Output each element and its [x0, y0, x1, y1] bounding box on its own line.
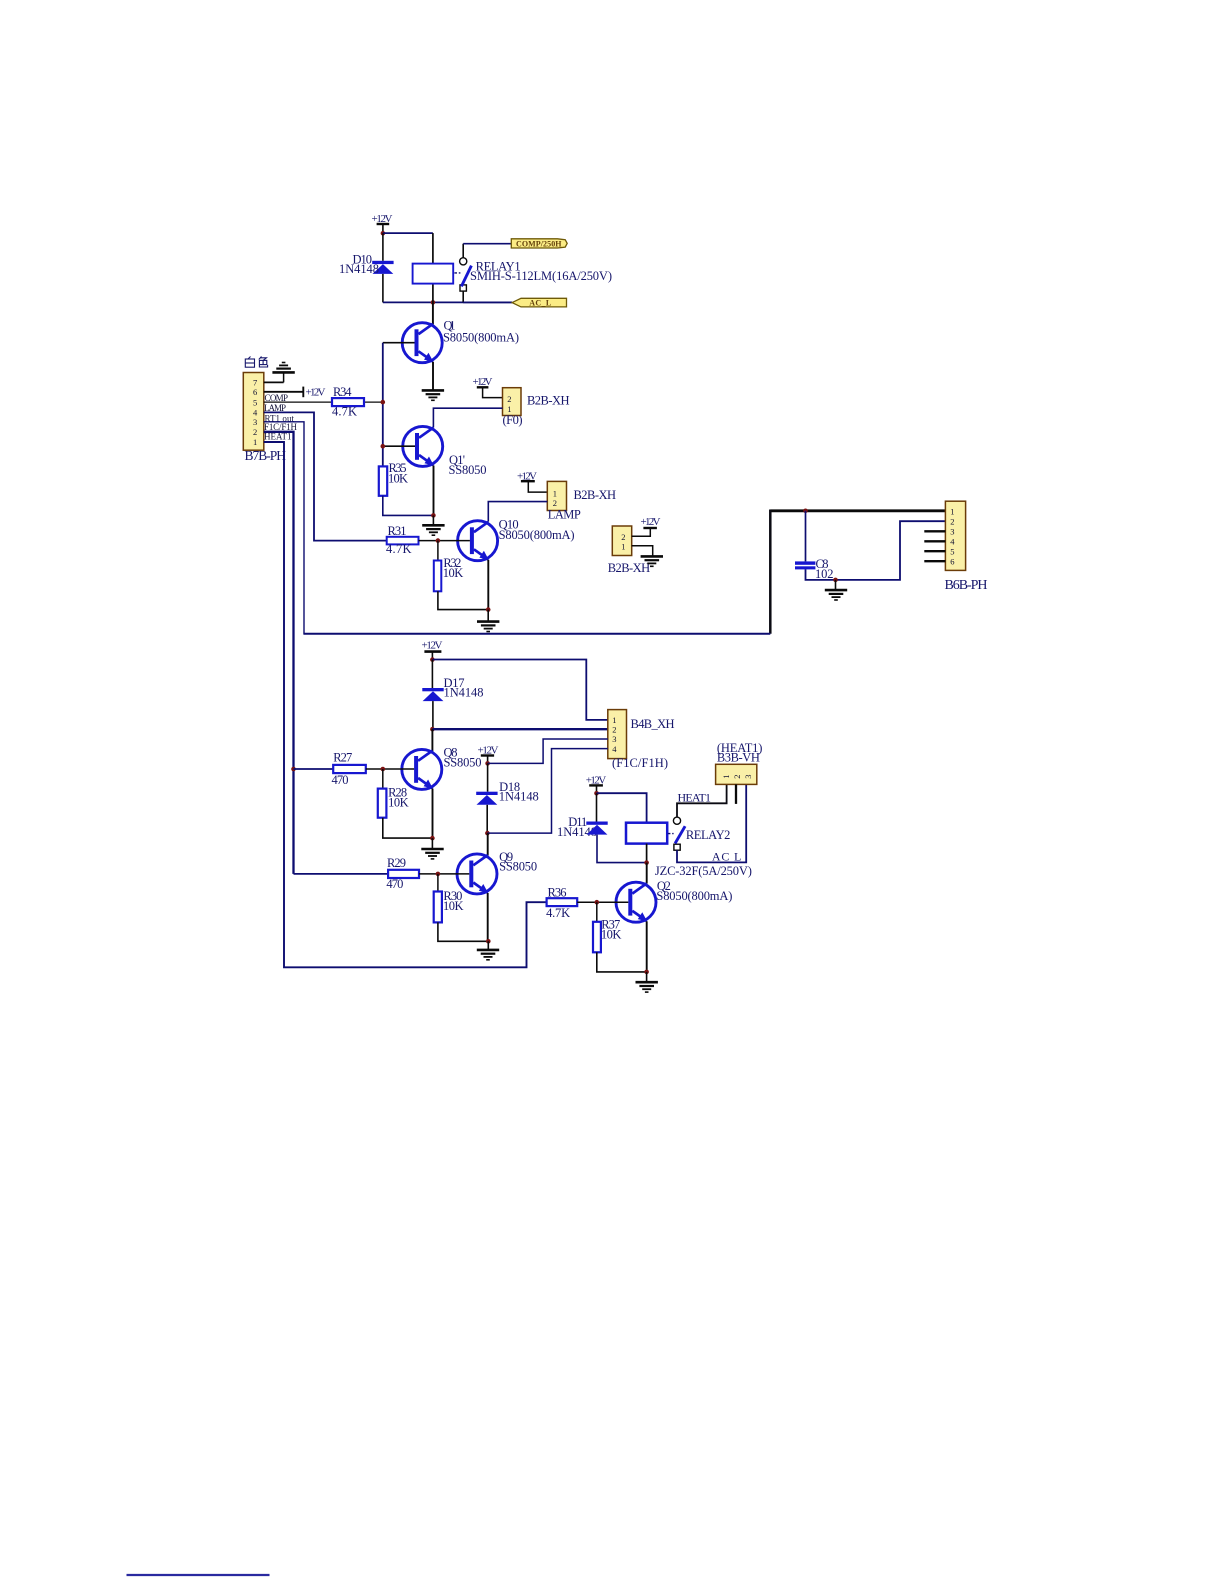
wire LAMP pin2 to Q10 collector	[488, 502, 547, 522]
label R34	[332, 385, 357, 418]
pin numbers B6B-PH 1..6	[950, 507, 955, 567]
svg-text:+12V: +12V	[473, 376, 493, 388]
wire C8 top stub	[805, 511, 807, 562]
wire R28 bottom to Q8 emitter junction	[383, 818, 433, 838]
svg-text:4: 4	[950, 537, 955, 547]
label Q1	[443, 318, 519, 344]
svg-text:1N4148: 1N4148	[339, 262, 379, 276]
svg-text:B6B-PH: B6B-PH	[945, 578, 988, 593]
svg-text:+12V: +12V	[306, 387, 326, 399]
svg-text:B3B-VH: B3B-VH	[717, 750, 760, 764]
label B2B-XH (F0)	[503, 394, 570, 427]
svg-text:1: 1	[612, 715, 616, 725]
power +12V (relay1)	[372, 213, 393, 234]
label C8	[815, 557, 834, 581]
wire B4B_XH pin2 row	[432, 728, 607, 730]
wire F0 pin1 to Q1' collector	[433, 408, 502, 427]
power +12V (F0)	[473, 376, 503, 398]
wire lower B2B-XH pin1 to ground	[632, 546, 653, 556]
svg-text:SS8050: SS8050	[499, 859, 537, 873]
wire stub to ground	[487, 610, 489, 622]
label RELAY1	[470, 259, 612, 282]
label D17	[444, 676, 484, 700]
pin numbers B2B-XH (lower)	[621, 532, 625, 552]
wire base column Q1/R34/Q1'/R35	[382, 343, 384, 467]
label B6B-PH	[945, 578, 988, 593]
svg-text:4: 4	[612, 744, 617, 754]
diode D11	[586, 822, 607, 835]
wire R27 to Q8 base	[366, 768, 414, 770]
connector B7B-PH body	[243, 373, 263, 451]
wire pin5 to R34	[264, 401, 383, 403]
diode D18	[476, 792, 497, 805]
svg-text:2: 2	[253, 427, 257, 437]
label RT1 out	[265, 413, 295, 423]
svg-text:B2B-XH: B2B-XH	[574, 488, 617, 502]
node junction Q2 emitter/R37	[644, 970, 649, 975]
wire relay2 coil bottom stub	[646, 844, 648, 863]
resistor R37	[593, 922, 601, 953]
svg-text:+12V: +12V	[641, 516, 661, 528]
label LAMP	[264, 403, 286, 413]
svg-text:2: 2	[950, 517, 954, 527]
wire Q10 emitter	[487, 560, 489, 610]
wire D11 anode to coil2 bottom junction	[597, 835, 647, 863]
node junction coil2/D11/Q2 collector	[644, 860, 649, 865]
power +12V (D18)	[478, 745, 499, 764]
wire relay1 common to AC_L flag (part of bottom row)	[463, 301, 512, 303]
wire R37 bottom to Q2 emitter junction	[597, 952, 647, 972]
label 白色 (drawn glyphs)	[245, 357, 267, 368]
svg-text:3: 3	[612, 734, 616, 744]
svg-text:SS8050: SS8050	[444, 756, 482, 770]
svg-text:JZC-32F(5A/250V): JZC-32F(5A/250V)	[655, 864, 752, 878]
connector B2B-XH (F0) body	[503, 388, 522, 416]
svg-text:R29: R29	[387, 856, 406, 870]
svg-text:R27: R27	[333, 751, 352, 765]
label Q10	[499, 517, 575, 542]
wire Q9 emitter	[487, 893, 489, 941]
wire relay2 NO contact to HEAT1/B3B pin1	[677, 784, 727, 817]
svg-text:1: 1	[950, 507, 954, 517]
svg-text:AC_L: AC_L	[529, 299, 551, 308]
wire pin4 down to R31 row	[264, 412, 387, 540]
label B4B_XH	[612, 717, 675, 770]
resistor R35	[379, 466, 387, 495]
svg-text:470: 470	[332, 773, 349, 787]
svg-text:1N4148: 1N4148	[499, 789, 539, 803]
node junction D17/B4B pin2	[430, 727, 435, 732]
diode D17	[422, 688, 443, 701]
node junction Q8 emitter/R28	[430, 836, 435, 841]
svg-text:10K: 10K	[388, 471, 408, 485]
connector B3B-VH body	[716, 764, 757, 784]
resistor R27	[333, 765, 366, 773]
label R29	[386, 856, 406, 891]
wire D11 cathode stub	[596, 793, 598, 821]
svg-text:S8050(800mA): S8050(800mA)	[656, 889, 732, 903]
svg-text:10K: 10K	[443, 899, 464, 913]
node junction Q10 emitter/R32	[486, 607, 491, 612]
node junction R29/R30/Q9 base	[436, 872, 441, 877]
ground Q2 emitter	[636, 982, 658, 992]
wire D17 anode stub	[432, 701, 434, 729]
connector B2B-XH (lower) body	[612, 526, 631, 556]
svg-text:5: 5	[253, 397, 257, 407]
connector B4B_XH body	[608, 710, 627, 759]
connector B2B-XH (LAMP) body	[547, 481, 566, 510]
wire +12V node to relay1 coil top	[383, 233, 433, 264]
transistor Q1	[402, 323, 442, 363]
svg-text:470: 470	[386, 877, 403, 891]
ground lower B2B-XH pin1	[641, 556, 663, 566]
node junction R31/R32/Q10 base	[436, 538, 441, 543]
label R35	[388, 461, 408, 486]
node junction C8 top	[803, 509, 808, 514]
svg-text:3: 3	[253, 417, 257, 427]
resistor R28	[378, 789, 387, 818]
power +12V (lower B2B-XH)	[632, 516, 661, 537]
svg-text:1: 1	[253, 437, 257, 447]
power +12V (D17)	[422, 639, 443, 659]
wire R29 to Q9 base	[419, 873, 469, 875]
net flag COMP/250H	[511, 239, 567, 249]
label D18	[499, 780, 539, 803]
node junction Q1' emitter/R35	[431, 513, 436, 518]
label B2B-XH (lower)	[608, 561, 651, 575]
svg-text:SS8050: SS8050	[449, 463, 487, 477]
resistor R31	[387, 537, 419, 545]
node junction Q1' base	[381, 444, 386, 449]
svg-text:S8050(800mA): S8050(800mA)	[443, 330, 519, 344]
label AC L (net)	[712, 850, 742, 864]
wire R28 top stub	[382, 769, 384, 789]
pin numbers B7B-PH 7..1	[253, 378, 258, 448]
wire stub to ground	[646, 972, 648, 982]
wire bottom row D10/coil/switch	[383, 291, 512, 302]
wire R36 to Q2 base	[577, 901, 628, 903]
wire pin2 line to R27	[294, 768, 334, 770]
svg-text:B2B-XH: B2B-XH	[608, 561, 651, 575]
node junction R34/base column	[381, 400, 386, 405]
svg-text:RELAY2: RELAY2	[686, 828, 731, 842]
label B7B-PH	[245, 448, 287, 463]
wire R30 bottom to Q9 emitter junction	[438, 922, 488, 941]
transistor Q10	[458, 521, 498, 561]
svg-text:B4B_XH: B4B_XH	[631, 717, 675, 731]
label JZC-32F	[655, 864, 752, 878]
node junction R36/R37/Q2 base	[595, 900, 600, 905]
wire B6B-PH pin6 stub	[924, 560, 945, 562]
label COMP	[265, 393, 289, 403]
ground Q1' emitter	[422, 525, 444, 535]
node junction relay1 coil bottom	[431, 300, 436, 305]
label HEAT1 (net)	[678, 791, 712, 805]
node junction pin2 line / R27	[291, 767, 296, 772]
svg-text:+12V: +12V	[422, 639, 443, 651]
label Q8	[444, 746, 482, 770]
connector B6B-PH body	[945, 501, 965, 570]
ground C8	[825, 590, 847, 600]
wire Q8 collector	[431, 729, 433, 751]
wire Q2 collector	[646, 863, 648, 884]
svg-text:SMIH-S-112LM(16A/250V): SMIH-S-112LM(16A/250V)	[470, 269, 612, 283]
wire pin6 to +12V	[264, 391, 303, 393]
pin numbers B3B-VH 1,2,3 (rotated)	[721, 774, 753, 778]
svg-text:R36: R36	[548, 885, 567, 899]
wire D10 cathode stub	[382, 233, 384, 260]
svg-text:R34: R34	[333, 385, 352, 399]
svg-text:B2B-XH: B2B-XH	[527, 394, 570, 408]
label F1C/F1H	[264, 422, 298, 432]
node junction +12V/D11/coil2	[594, 791, 599, 796]
resistor R29	[388, 870, 419, 878]
wire R30 top stub	[437, 874, 439, 892]
wire thick net B6B-PH pin1 / F1C-F1H routing	[303, 510, 945, 634]
label D11	[557, 815, 597, 839]
svg-text:AC L: AC L	[712, 850, 742, 864]
resistor R30	[434, 892, 442, 923]
bottom margin line	[127, 1574, 270, 1576]
wire Q1 emitter	[432, 362, 434, 390]
label Q9	[499, 850, 537, 874]
wire stub to ground	[432, 515, 434, 524]
svg-text:B7B-PH: B7B-PH	[245, 448, 287, 463]
svg-text:1: 1	[721, 774, 731, 778]
relay RELAY1 coil	[413, 264, 454, 284]
svg-text:6: 6	[253, 387, 257, 397]
svg-text:2: 2	[732, 774, 742, 778]
svg-text:5: 5	[950, 547, 954, 557]
label HEAT1	[264, 431, 292, 441]
svg-text:(F1C/F1H): (F1C/F1H)	[612, 756, 668, 770]
wire B6B-PH pin3 stub	[924, 530, 945, 532]
node junction D18/B4B pin4/Q9 collector	[485, 831, 490, 836]
relay RELAY1 switch	[454, 258, 471, 291]
wire stub to ground	[835, 580, 837, 590]
capacitor C8	[795, 561, 815, 569]
svg-text:2: 2	[621, 532, 625, 542]
svg-text:6: 6	[950, 557, 954, 567]
label RELAY2	[686, 828, 731, 842]
ground Q8 emitter	[421, 849, 443, 859]
wire B6B-PH pin5 stub	[924, 550, 945, 552]
wire Q1 base	[383, 342, 415, 344]
wire D10 anode stub	[382, 274, 384, 303]
svg-text:(F0): (F0)	[503, 413, 523, 427]
power +12V (LAMP)	[517, 470, 547, 492]
wire R32 bottom to emitter junction	[438, 591, 488, 609]
wire D17 cathode stub	[431, 660, 433, 688]
wire D18 cathode stub	[487, 763, 489, 791]
svg-text:10K: 10K	[601, 927, 622, 941]
wire stub to ground	[487, 941, 489, 949]
wire node to B4B_XH pin4	[487, 749, 607, 834]
wire R32 top stub	[437, 541, 439, 561]
pin numbers B4B_XH 1..4	[612, 715, 617, 754]
wire Q1' emitter	[433, 466, 435, 516]
node junction Q9 emitter/R30	[486, 939, 491, 944]
svg-text:2: 2	[507, 394, 511, 404]
node junction C8 ground tap	[833, 578, 838, 583]
svg-text:3: 3	[950, 527, 954, 537]
node junction +12V/D10/relay1	[381, 231, 386, 236]
label R37	[601, 917, 622, 941]
label R30	[443, 889, 464, 913]
label D10	[339, 253, 379, 276]
wire R37 top stub	[596, 902, 598, 922]
pin numbers B2B-XH (F0)	[507, 394, 511, 414]
ground Q9 emitter	[477, 950, 499, 960]
net flag AC_L	[512, 298, 566, 307]
resistor R36	[547, 898, 578, 906]
label Q2	[656, 879, 732, 903]
label B3B-VH	[717, 741, 763, 765]
diode D10	[372, 261, 393, 274]
node junction R27/R28/Q8 base	[381, 767, 386, 772]
wire B6B-PH pin4 stub	[924, 540, 945, 542]
svg-text:COMP/250H: COMP/250H	[516, 239, 562, 248]
label B2B-XH (LAMP)	[548, 488, 616, 522]
svg-text:2: 2	[553, 498, 557, 508]
power +12V (relay2)	[586, 775, 607, 794]
power +12V (pin6)	[303, 387, 325, 399]
transistor Q2	[616, 882, 656, 922]
relay RELAY2 switch	[668, 817, 685, 850]
svg-text:1N4148: 1N4148	[444, 686, 484, 700]
wire +12V node to B4B_XH pin1	[432, 660, 607, 720]
ground Q10 emitter	[477, 622, 499, 632]
wire Q2 emitter	[646, 921, 648, 972]
label R28	[388, 785, 409, 809]
label Q1'	[449, 453, 487, 477]
wire R35 bottom to emitter junction	[383, 496, 434, 516]
label R32	[443, 556, 464, 580]
svg-text:10K: 10K	[443, 566, 464, 580]
wire Q1' base	[383, 445, 415, 447]
wire pin2 down to R27/R29	[264, 432, 294, 874]
wire pin7 to ground	[264, 372, 284, 382]
svg-text:HEAT1: HEAT1	[678, 791, 712, 805]
wire D18 anode stub	[486, 805, 488, 833]
label R27	[332, 751, 353, 787]
wire Q9 collector	[487, 833, 489, 855]
label R36	[546, 885, 570, 920]
wire relay1 coil bottom stub	[432, 284, 434, 303]
wire Q8 emitter	[432, 789, 434, 839]
resistor R34	[332, 398, 364, 406]
relay RELAY2 coil	[626, 823, 667, 844]
svg-text:4.7K: 4.7K	[386, 542, 412, 556]
svg-text:R31: R31	[388, 524, 407, 538]
wire node to B4B_XH pin3	[488, 739, 608, 763]
transistor Q1'	[403, 426, 443, 466]
node junction +12V/D17	[430, 657, 435, 662]
wire relay1 NO contact to COMP/250H flag	[463, 244, 511, 258]
wire node to relay2 coil top	[597, 793, 647, 823]
svg-text:4.7K: 4.7K	[546, 906, 570, 920]
ground pin7 (inverted)	[272, 363, 294, 373]
wire relay2 common to AC L/B3B pin3	[677, 784, 746, 862]
wire C8 bottom to B6B-PH pin2	[806, 521, 946, 580]
wire R31 to Q10 base	[419, 540, 470, 542]
transistor Q8	[402, 749, 442, 789]
svg-text:1: 1	[621, 542, 625, 552]
wire B3B-VH pin2 stub	[735, 784, 737, 804]
node junction +12V/D18/B4B pin3	[485, 761, 490, 766]
svg-text:10K: 10K	[388, 796, 409, 810]
ground Q1 emitter	[422, 390, 444, 400]
wire stub to ground	[431, 838, 433, 849]
pin numbers B2B-XH (LAMP)	[553, 488, 557, 507]
wire pin2 line to R29	[294, 873, 389, 875]
wire Q1 collector	[432, 302, 434, 324]
wire pin3 down to long bottom net	[264, 422, 304, 634]
transistor Q9	[457, 854, 497, 894]
wire pin1 down to R36	[264, 442, 547, 967]
svg-text:4.7K: 4.7K	[332, 404, 357, 418]
svg-text:LAMP: LAMP	[548, 507, 581, 521]
resistor R32	[434, 561, 442, 592]
svg-text:3: 3	[743, 774, 753, 778]
svg-text:S8050(800mA): S8050(800mA)	[499, 528, 575, 542]
svg-text:2: 2	[612, 725, 616, 735]
label R31	[386, 524, 412, 556]
